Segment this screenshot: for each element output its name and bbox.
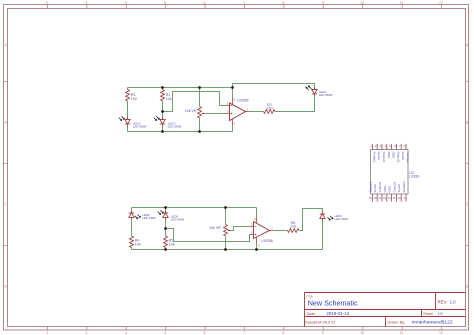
svg-text:6: 6 <box>204 331 206 335</box>
IC U3 bottom pin numbers <box>369 196 406 200</box>
LED1 light arrows <box>306 86 312 90</box>
LED5 branch wires <box>131 208 133 250</box>
wire op-amp V+ stub <box>232 88 234 98</box>
LED3 photodiode <box>160 117 165 127</box>
junction pot/bottom rail <box>198 130 201 133</box>
frame column numbers <box>46 1 443 5</box>
wire pot wiper to op-amp IN+ <box>205 113 226 115</box>
svg-text:12: 12 <box>439 1 443 5</box>
potentiometer VR2 10k <box>224 225 231 237</box>
frame column ticks bottom <box>48 327 442 331</box>
svg-text:10k: 10k <box>169 242 175 246</box>
wire R2 to LED1 <box>275 96 315 111</box>
junction op-amp2 V-/bottom rail <box>255 248 258 251</box>
LED1 emitter <box>312 87 317 97</box>
svg-text:10k: 10k <box>166 97 172 101</box>
LED4 light arrows <box>327 216 333 220</box>
junction LED3/bottom rail <box>161 130 164 133</box>
svg-text:12: 12 <box>439 331 443 335</box>
frame row letters left <box>4 43 7 289</box>
op-amp U1 LM358 <box>226 98 249 126</box>
op-amp U1 pin numbers <box>227 97 249 125</box>
LED6 photodiode <box>163 210 168 220</box>
svg-text:100: 100 <box>131 97 137 101</box>
wire R1 branch <box>162 88 164 132</box>
svg-text:Output2: Output2 <box>396 152 400 163</box>
LED5 emitter <box>129 210 134 220</box>
svg-text:Input1: Input1 <box>377 152 381 161</box>
svg-text:2019-01-12: 2019-01-12 <box>326 311 350 316</box>
wire pot2 top lead <box>225 208 227 225</box>
resistor R3 <box>126 90 130 102</box>
svg-text:Supply1: Supply1 <box>368 181 372 192</box>
junction pot2/top rail <box>224 206 227 209</box>
svg-text:Input2: Input2 <box>401 152 405 161</box>
wire pot2 wiper to op-amp IN+ <box>231 227 251 231</box>
svg-text:220: 220 <box>290 225 296 229</box>
wire top rail V+ <box>128 87 233 89</box>
svg-text:LED-5MM: LED-5MM <box>133 125 147 129</box>
IC U3 bottom pins <box>372 194 406 202</box>
junction op-amp V+/rail <box>231 86 234 89</box>
svg-text:2: 2 <box>46 331 48 335</box>
LED6 branch wires <box>165 208 167 250</box>
frame column ticks top <box>48 5 442 9</box>
svg-text:8: 8 <box>282 1 284 5</box>
svg-text:10: 10 <box>360 331 364 335</box>
wire op-amp2 V- stub <box>256 244 258 250</box>
svg-text:REV:: REV: <box>438 299 448 304</box>
wire bottom circuit top rail <box>132 207 257 209</box>
wire op-amp2 V+ stub <box>256 208 258 217</box>
resistor R1 <box>161 90 165 102</box>
svg-text:10: 10 <box>360 1 364 5</box>
svg-text:LED-5MM: LED-5MM <box>168 125 182 129</box>
svg-text:+Vmotor: +Vmotor <box>406 152 410 163</box>
svg-text:LED-5MM: LED-5MM <box>171 217 185 221</box>
wire pot top lead <box>199 88 201 107</box>
svg-text:6: 6 <box>204 1 206 5</box>
svg-text:3: 3 <box>85 1 87 5</box>
wire op-amp2 out to R6 <box>274 230 288 232</box>
svg-text:4: 4 <box>125 1 127 5</box>
svg-text:Date:: Date: <box>307 311 316 316</box>
svg-text:LED-5MM: LED-5MM <box>334 217 348 221</box>
svg-text:Input3: Input3 <box>397 184 401 193</box>
resistor R2 <box>264 110 276 114</box>
svg-text:Input4: Input4 <box>373 184 377 193</box>
resistor R4 <box>130 236 134 248</box>
svg-text:1/1: 1/1 <box>438 311 443 316</box>
title block row dividers <box>305 310 466 317</box>
svg-text:Drawn By:: Drawn By: <box>387 319 405 324</box>
frame row letters right <box>466 43 469 289</box>
title block column dividers <box>386 293 436 327</box>
resistor R6 <box>288 229 300 233</box>
svg-text:10k VR: 10k VR <box>185 109 197 113</box>
wire bottom circuit bottom rail <box>132 249 323 251</box>
svg-text:4: 4 <box>125 331 127 335</box>
svg-text:GND: GND <box>383 185 387 193</box>
svg-text:7: 7 <box>243 331 245 335</box>
junction pot2/bottom rail <box>224 248 227 251</box>
svg-text:L293D: L293D <box>409 174 420 178</box>
potentiometer VR1 10k <box>198 107 205 119</box>
IC U3 bottom pin names <box>368 181 406 192</box>
svg-text:GND: GND <box>387 152 391 160</box>
svg-text:16: 16 <box>369 196 372 200</box>
junction LED6/R5 tap <box>164 227 167 230</box>
svg-text:GND: GND <box>392 152 396 160</box>
LED2 light arrows <box>119 116 125 120</box>
wire pot bottom lead <box>199 118 201 132</box>
svg-text:Sheet:: Sheet: <box>423 312 433 316</box>
LED5 light arrows <box>135 215 141 219</box>
svg-text:11: 11 <box>400 1 404 5</box>
svg-text:12: 12 <box>388 196 391 200</box>
svg-text:11: 11 <box>400 331 404 335</box>
svg-text:Enable1: Enable1 <box>372 152 376 163</box>
frame row ticks left <box>4 82 8 246</box>
svg-text:EasyEDA V5.9.22: EasyEDA V5.9.22 <box>305 320 335 324</box>
svg-text:5: 5 <box>164 1 166 5</box>
svg-text:9: 9 <box>322 1 324 5</box>
wire R6 to LED4 <box>299 209 323 231</box>
svg-text:2: 2 <box>46 1 48 5</box>
junction pot/rail <box>198 86 201 89</box>
svg-text:New Schematic: New Schematic <box>308 299 358 308</box>
junction LED6/top rail <box>164 206 167 209</box>
LED3 light arrows <box>154 116 160 120</box>
svg-text:100: 100 <box>135 242 141 246</box>
LED6 light arrows <box>158 210 164 214</box>
svg-text:10k VR: 10k VR <box>209 226 221 230</box>
svg-text:1.0: 1.0 <box>450 299 457 304</box>
svg-text:7: 7 <box>243 1 245 5</box>
svg-text:imranhameed6122: imranhameed6122 <box>412 319 453 325</box>
junction R1/rail <box>161 86 164 89</box>
op-amp U2 LM358 <box>251 216 274 244</box>
IC U3 top pin names <box>372 152 410 163</box>
svg-text:LM358: LM358 <box>261 239 272 243</box>
junction R1/LED3 tap <box>161 110 164 113</box>
wire R1 tap to op-amp IN- <box>163 92 227 112</box>
svg-text:10: 10 <box>398 196 401 200</box>
svg-text:3: 3 <box>85 331 87 335</box>
title block outline <box>305 293 466 327</box>
IC U3 body <box>371 150 409 195</box>
resistor R5 <box>164 236 168 248</box>
svg-text:14: 14 <box>378 196 381 200</box>
wire op-amp V- stub <box>232 126 234 132</box>
svg-text:LED-5MM: LED-5MM <box>319 93 333 97</box>
svg-text:LED-5MM: LED-5MM <box>142 216 156 220</box>
wire op-amp out to R2 <box>250 111 264 113</box>
wire LED4 return <box>322 221 324 250</box>
wire bottom rail <box>128 131 233 133</box>
IC U3 top pin numbers <box>370 144 406 148</box>
svg-text:Output3: Output3 <box>392 181 396 192</box>
wire R3 branch left <box>127 88 129 132</box>
svg-text:Output1: Output1 <box>382 152 386 163</box>
svg-text:8: 8 <box>282 331 284 335</box>
junction R5/bottom rail <box>164 248 167 251</box>
IC U3 top pins <box>372 144 406 150</box>
frame row ticks right <box>466 82 469 246</box>
wire pot2 bottom lead <box>225 236 227 250</box>
wire R5 tap to op-amp IN- <box>166 229 251 242</box>
LED2 photodiode <box>125 117 130 127</box>
svg-text:Enable2: Enable2 <box>402 181 406 192</box>
svg-text:13: 13 <box>383 196 386 200</box>
svg-text:LM358: LM358 <box>237 99 248 103</box>
svg-text:15: 15 <box>374 196 377 200</box>
op-amp U2 pin numbers <box>251 217 273 248</box>
svg-text:220: 220 <box>267 107 273 111</box>
wire upper rail to LED1 loop <box>233 84 315 88</box>
svg-text:GND: GND <box>388 185 392 193</box>
svg-text:5: 5 <box>164 331 166 335</box>
LED4 emitter <box>320 211 325 221</box>
svg-text:Output4: Output4 <box>378 181 382 192</box>
svg-text:9: 9 <box>322 331 324 335</box>
